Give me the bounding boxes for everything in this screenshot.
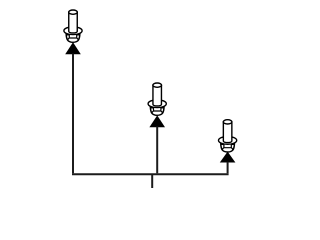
stub line (short drop below bottom rail) [151,174,153,188]
arrow A1 (filled arrowhead pointing up at bolt B1) [65,42,81,54]
leader line from bolt B2 arrow down to bottom rail [156,127,158,174]
arrow A3 (filled arrowhead pointing up at bolt B3) [220,152,236,163]
bolt B1 (flange bolt icon, top-left) [64,10,82,42]
bottom rail (horizontal connector line) [72,173,229,175]
bolt B3 (flange bolt icon, right) [219,120,237,152]
arrow A2 (filled arrowhead pointing up at bolt B2) [149,115,165,127]
leader line from bolt B3 arrow down to bottom rail [227,162,229,174]
leader line from bolt B1 arrow down to bottom rail [72,54,74,174]
bolt B2 (flange bolt icon, middle) [148,83,166,115]
